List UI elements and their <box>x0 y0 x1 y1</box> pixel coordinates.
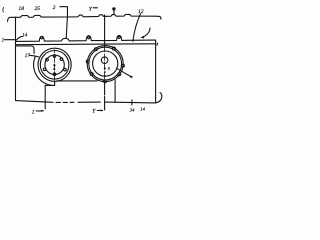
svg-text:Y: Y <box>92 109 96 115</box>
svg-text:1: 1 <box>32 109 35 115</box>
svg-text:12: 12 <box>138 9 144 15</box>
svg-text:14: 14 <box>22 34 28 39</box>
svg-text:Y: Y <box>89 6 93 12</box>
svg-text:25: 25 <box>35 6 41 12</box>
svg-text:1: 1 <box>2 38 5 43</box>
svg-text:14: 14 <box>140 107 145 112</box>
svg-text:17: 17 <box>25 54 31 59</box>
svg-text:34: 34 <box>130 107 135 112</box>
svg-text:18: 18 <box>19 6 25 12</box>
svg-text:9: 9 <box>108 66 110 71</box>
svg-text:2: 2 <box>53 5 56 11</box>
